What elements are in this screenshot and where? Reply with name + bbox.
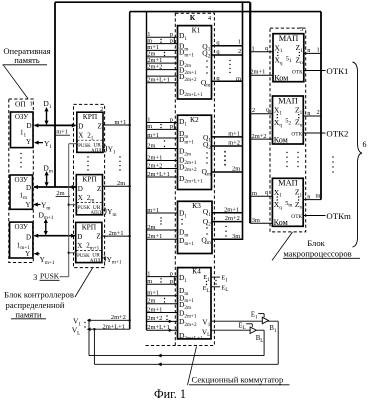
svg-text:2: 2	[317, 109, 320, 116]
block MAP 5-1	[273, 34, 304, 82]
wire OTK1 row	[304, 70, 326, 72]
svg-text:АПД: АПД	[91, 149, 102, 154]
svg-text:2m: 2m	[147, 298, 155, 305]
wire MAP2 Z row	[303, 115, 321, 117]
wire OTKm row	[303, 215, 325, 217]
label Y1 brace out	[103, 147, 105, 149]
wire MAP1 Z row	[304, 52, 321, 54]
svg-text:2m+L+1: 2m+L+1	[147, 77, 169, 84]
svg-text:2m+1: 2m+1	[109, 230, 124, 237]
block OZU 1-m	[10, 175, 33, 209]
wire V1 row left	[88, 319, 130, 321]
svg-text:К4: К4	[192, 267, 201, 276]
block OZU 1-m+1	[10, 222, 33, 258]
block MAP 5-m	[272, 178, 303, 226]
block K1	[178, 26, 212, 99]
wire Ym+1 arrow	[35, 253, 40, 255]
svg-text:D: D	[77, 233, 82, 241]
dots between MAP blocks	[286, 152, 287, 153]
svg-text:ОТК: ОТК	[292, 69, 303, 75]
svg-text:1: 1	[30, 100, 33, 107]
svg-text:2m+2: 2m+2	[225, 215, 240, 222]
svg-text:КРП: КРП	[82, 222, 97, 231]
svg-text:2m: 2m	[232, 166, 240, 173]
wire pointer to K4	[188, 347, 197, 386]
svg-text:Z: Z	[97, 185, 101, 193]
svg-text:Ком: Ком	[274, 218, 288, 227]
wire KRP Z row 3	[102, 235, 130, 237]
svg-text:PUSK: PUSK	[77, 254, 90, 259]
wire Y1 arrow	[35, 142, 43, 144]
block K 4 dashed (commutator)	[175, 13, 214, 345]
wire bus1 vertical x=242.5 (K outputs)	[242, 2, 244, 240]
svg-text:КРП: КРП	[83, 112, 98, 121]
wire PUSK feed	[60, 276, 69, 278]
svg-text:p: p	[170, 278, 173, 285]
svg-text:m+1: m+1	[56, 128, 68, 135]
wire bus2 vertical x=250.2 (MAP inputs)	[249, 2, 251, 223]
svg-text:X: X	[78, 132, 83, 140]
svg-text:X: X	[77, 242, 82, 250]
wire D row 3	[34, 235, 75, 237]
wire pointer to block 5	[272, 232, 293, 261]
svg-text:Z: Z	[96, 233, 100, 241]
svg-text:К1: К1	[192, 26, 201, 35]
svg-text:Блок контроллеров: Блок контроллеров	[4, 289, 74, 299]
svg-text:МАП: МАП	[279, 34, 299, 43]
wire VL row left	[88, 328, 130, 330]
pin PUSK UR APD dashed	[76, 250, 101, 262]
svg-text:2m+1: 2m+1	[147, 233, 162, 240]
wire MAP2 Kom row	[250, 138, 272, 140]
wire B1 loop down	[277, 321, 279, 364]
svg-text:2m+L+1: 2m+L+1	[147, 171, 169, 178]
wire MAP3 X row	[250, 195, 272, 197]
svg-text:память: память	[14, 55, 40, 65]
dots OTK column	[332, 156, 333, 157]
wire left vertical memory bus x=55	[54, 2, 56, 187]
svg-text:Ком: Ком	[274, 136, 288, 145]
svg-text:макропроцессоров: макропроцессоров	[283, 248, 351, 258]
wire KRP Z row 2	[103, 185, 130, 187]
node K1 input rows	[147, 36, 178, 38]
block 5 dashed (macroprocessors)	[270, 28, 306, 232]
wire PUSK vertical bus	[68, 144, 70, 277]
brace 6	[353, 62, 363, 247]
buffer B1	[262, 317, 268, 323]
wire K3 output rows	[212, 212, 243, 214]
block MAP 5-2	[273, 96, 304, 144]
node K4 input rows	[147, 276, 178, 278]
svg-text:UR: UR	[93, 142, 101, 148]
wire pointer to OP box	[4, 65, 29, 98]
svg-text:ОТК2: ОТК2	[326, 129, 348, 139]
svg-text:m: m	[316, 193, 321, 200]
wire K1 output rows	[212, 45, 243, 47]
svg-text:ОЗУ: ОЗУ	[15, 113, 28, 121]
block KRP 2-1	[77, 112, 103, 152]
svg-text:2m: 2m	[117, 180, 125, 187]
svg-text:2m+L+1: 2m+L+1	[147, 324, 169, 331]
wire pointer to block 2	[75, 268, 93, 297]
svg-text:2m+2: 2m+2	[147, 162, 162, 169]
dots	[20, 153, 21, 154]
svg-text:PUSK: PUSK	[40, 272, 60, 281]
svg-text:2m+1: 2m+1	[250, 69, 265, 76]
wire D row 2	[34, 186, 76, 188]
svg-text:Y: Y	[26, 138, 31, 146]
svg-text:памяти: памяти	[15, 309, 42, 319]
svg-text:К3: К3	[192, 201, 201, 210]
block KRP 2-m+1	[76, 222, 102, 262]
wire V1 output row right	[211, 320, 278, 322]
wire bottom bus upper	[89, 355, 264, 357]
svg-text:МАП: МАП	[278, 179, 298, 188]
wire KRP Z row 1	[103, 124, 130, 126]
svg-text:X: X	[78, 194, 83, 202]
svg-text:МАП: МАП	[278, 96, 298, 105]
block KRP 2-m	[76, 175, 102, 215]
svg-text:К2: К2	[190, 115, 199, 124]
svg-text:2m+2: 2m+2	[111, 314, 126, 321]
wire MAP1 X row	[250, 51, 273, 53]
wire left VL riser	[93, 329, 95, 364]
svg-text:Фиг. 1: Фиг. 1	[154, 387, 186, 400]
wire D row 1	[35, 124, 76, 126]
svg-text:1: 1	[238, 39, 241, 46]
svg-text:ОП: ОП	[15, 100, 26, 109]
svg-text:2m+1: 2m+1	[224, 206, 239, 213]
svg-text:Z: Z	[98, 122, 102, 130]
wire MAP3 Z row	[303, 199, 321, 201]
svg-text:ОТК: ОТК	[291, 132, 302, 138]
svg-text:Секционный коммутатор: Секционный коммутатор	[192, 375, 284, 385]
svg-text:2: 2	[238, 48, 241, 55]
svg-text:m+1: m+1	[115, 119, 127, 126]
wire BL loop down	[263, 330, 265, 355]
dots between KRP blocks	[87, 156, 88, 157]
block K4 (sectional commutator)	[178, 268, 212, 339]
svg-text:UR: UR	[92, 253, 100, 259]
block OP 1 dashed (RAM unit)	[9, 99, 34, 263]
svg-text:D: D	[78, 123, 83, 131]
svg-text:1: 1	[147, 270, 150, 277]
pin PUSK UR APD dashed	[77, 140, 102, 152]
node K2 input rows	[147, 122, 178, 124]
svg-text:m: m	[147, 123, 152, 130]
svg-text:p: p	[170, 37, 173, 44]
svg-text:m+1: m+1	[147, 290, 159, 297]
wire MAP2 X row	[250, 113, 272, 115]
svg-text:ОТКm: ОТКm	[326, 211, 351, 221]
pin PUSK UR APD dashed	[77, 203, 102, 215]
svg-text:D: D	[26, 122, 31, 130]
svg-text:m: m	[236, 75, 241, 82]
svg-text:m+1: m+1	[147, 207, 159, 214]
svg-text:D: D	[26, 184, 31, 192]
buffer BL	[250, 327, 256, 333]
svg-text:Блок: Блок	[307, 238, 325, 248]
svg-text:АПД: АПД	[90, 259, 101, 264]
svg-text:2m+1: 2m+1	[147, 154, 162, 161]
svg-text:ОТК1: ОТК1	[326, 66, 348, 76]
svg-text:m+1: m+1	[228, 131, 240, 138]
svg-text:m: m	[252, 190, 257, 197]
svg-text:D: D	[78, 185, 83, 193]
svg-text:m+2: m+2	[228, 140, 240, 147]
svg-text:2m+2: 2m+2	[147, 315, 162, 322]
wire vertical stack bus x=146.5	[146, 12, 148, 331]
svg-text:p: p	[170, 270, 173, 277]
svg-text:2m+1: 2m+1	[147, 306, 162, 313]
wire K2 output rows	[212, 136, 243, 138]
wire VL output row right	[211, 329, 264, 331]
svg-text:3: 3	[33, 273, 37, 282]
wire MAP3 Kom row	[250, 222, 272, 224]
svg-text:3m: 3m	[232, 233, 240, 240]
svg-text:1: 1	[252, 46, 255, 53]
svg-text:Ком: Ком	[274, 73, 288, 82]
svg-text:2m: 2m	[56, 190, 64, 197]
svg-text:D: D	[26, 234, 31, 242]
block K2	[178, 115, 212, 189]
wire bottom bus lower	[94, 363, 278, 365]
svg-text:Y: Y	[25, 201, 30, 209]
block K3	[178, 201, 213, 253]
block 2 dashed (controllers)	[74, 104, 105, 267]
svg-text:UR: UR	[93, 205, 101, 211]
wire top bus T1 (memory loop)	[55, 1, 250, 3]
svg-text:1: 1	[317, 46, 320, 53]
svg-text:m+1: m+1	[147, 132, 159, 139]
svg-text:2m: 2m	[147, 142, 155, 149]
pin E1 EL stubs	[211, 276, 220, 278]
svg-text:PUSK: PUSK	[78, 144, 91, 149]
svg-text:5: 5	[300, 26, 303, 33]
svg-text:2m: 2m	[147, 224, 155, 231]
label Ym+1 brace out	[102, 257, 104, 259]
wire MAP1 Kom row	[250, 74, 273, 76]
svg-text:3m: 3m	[252, 217, 260, 224]
svg-text:ОТК: ОТК	[291, 214, 302, 220]
svg-text:ОЗУ: ОЗУ	[15, 223, 28, 231]
wire vertical Z-return x=321	[320, 12, 322, 200]
wire left V1 riser	[88, 320, 90, 355]
svg-text:АПД: АПД	[90, 211, 101, 216]
svg-text:6: 6	[363, 140, 367, 149]
svg-text:КРП: КРП	[82, 175, 97, 184]
wire OTK2 row	[303, 132, 325, 134]
svg-text:ОЗУ: ОЗУ	[15, 176, 28, 184]
wire top bus T2 (return loop)	[130, 11, 321, 13]
wire Ym arrow	[34, 204, 41, 206]
svg-text:m: m	[147, 278, 152, 285]
label Ym brace out	[103, 209, 105, 211]
svg-text:2: 2	[252, 107, 255, 114]
block OZU 1-1	[11, 112, 34, 148]
svg-text:Y: Y	[25, 250, 30, 258]
svg-text:2m+L+1: 2m+L+1	[103, 323, 125, 330]
svg-text:PUSK: PUSK	[78, 206, 91, 211]
node K3 input rows	[147, 212, 178, 214]
svg-text:p: p	[170, 123, 173, 130]
svg-text:2m+2: 2m+2	[147, 63, 162, 70]
svg-text:К: К	[190, 13, 196, 22]
svg-text:2m+2: 2m+2	[252, 133, 267, 140]
wire vertical return bus x=129.7	[129, 12, 131, 330]
